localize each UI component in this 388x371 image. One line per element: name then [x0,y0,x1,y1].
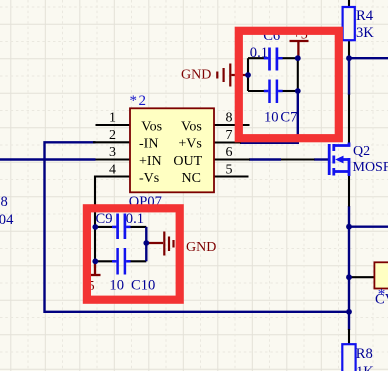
junction node B to CV box [346,274,352,280]
wire pin2 net: down left side and along bottom [45,142,350,311]
svg-text:6: 6 [226,145,233,160]
svg-text:5: 5 [226,162,233,177]
pin 2 [93,141,130,143]
svg-text:C9: C9 [96,211,113,227]
svg-text:10: 10 [109,277,124,293]
wire C6 top left [248,57,265,59]
wire C9 top right [130,226,146,228]
svg-text:4: 4 [109,162,116,177]
svg-text:CVR: CVR [375,292,388,308]
pin 5 [214,175,249,177]
junction R4 bottom +5 rail [346,55,352,61]
svg-text:3: 3 [109,145,116,160]
junction C6 top +5 node [295,55,301,61]
wire right node vertical [297,58,299,91]
pin 7 [214,141,241,143]
pin 1 [96,124,131,126]
capacitor C7 [264,80,283,104]
wire left node vertical [247,58,249,91]
resistor R8 [348,329,350,345]
svg-text:MOSFET: MOSFET [353,160,388,175]
wire mosfet source down [348,206,350,330]
junction node C bottom rail [346,309,352,315]
resistor R4 [348,0,350,8]
svg-text:0.1: 0.1 [250,45,268,61]
pin numbers [109,111,233,178]
capacitor C10 [112,248,131,275]
wire pin6 to gate [249,158,281,160]
wire gate lead [314,158,328,160]
svg-text:1K: 1K [356,364,374,371]
wire C9 top left [95,226,113,228]
svg-text:7: 7 [226,128,233,143]
svg-text:1: 1 [109,111,116,126]
power -5 [88,264,101,275]
svg-text:-Vs: -Vs [139,171,159,186]
wire C7 bottom right [282,90,298,92]
wire C6 top right [282,57,298,59]
wire right node vertical [145,227,147,261]
svg-text:Q2: Q2 [353,144,370,159]
transistor Q2 mosfet [348,95,350,144]
wire C10 bottom right [130,260,146,262]
svg-text:8: 8 [226,111,233,126]
svg-text:Vos: Vos [181,119,202,134]
wire pin6 black segment [281,158,315,160]
junction C9-C10 right node GND [143,240,149,246]
wire +Vs pin7 to +5 rail [240,91,298,143]
svg-text:GND: GND [181,68,211,83]
ground GND top [217,64,247,87]
wire R4 to mosfet drain [348,58,350,95]
capacitor C6 [264,48,283,71]
wire node A right [349,225,388,227]
svg-text:Vos: Vos [141,119,162,134]
pin names [139,119,203,186]
pin 8 [214,124,250,126]
svg-text:+Vs: +Vs [178,137,201,152]
svg-text:OUT: OUT [173,154,202,169]
ground GND bottom [146,232,173,256]
junction C7 bottom node [295,88,301,94]
svg-text:NC: NC [182,171,201,186]
svg-text:+IN: +IN [139,154,162,169]
svg-text:R8: R8 [356,346,373,362]
svg-text:0.1: 0.1 [126,211,144,227]
wire C10 bottom left [95,260,113,262]
wire pin3 net to left edge [0,158,96,160]
svg-text:2: 2 [109,128,116,143]
svg-text:C8: C8 [0,194,8,210]
op-amp U OP07 [130,108,214,192]
svg-text:C7: C7 [280,110,297,126]
component U2 partial yellow box [349,276,374,278]
wire C7 bottom left [248,90,265,92]
svg-text:-IN: -IN [139,137,158,152]
pin 3 [96,158,131,160]
svg-text:C10: C10 [131,277,155,293]
pin 6 [214,158,250,160]
red highlight box bottom [87,208,180,299]
svg-text:*2: *2 [130,93,148,109]
svg-text:R4: R4 [356,8,374,24]
svg-text:104: 104 [0,212,14,228]
wire +5 rail right [349,57,388,59]
capacitor C9 [112,214,131,240]
svg-text:GND: GND [186,240,216,255]
junction Q2 source node A [346,224,352,230]
wire left vertical to -5 [94,227,96,268]
junction C9 top node [92,224,98,230]
junction C10 bottom node [92,258,98,264]
svg-text:3K: 3K [356,25,374,41]
svg-text:10: 10 [264,110,279,126]
pin 4 [95,177,130,228]
red highlight box top [239,31,339,138]
power +5 [290,41,309,57]
junction C6-C7 left node GND [245,72,251,78]
